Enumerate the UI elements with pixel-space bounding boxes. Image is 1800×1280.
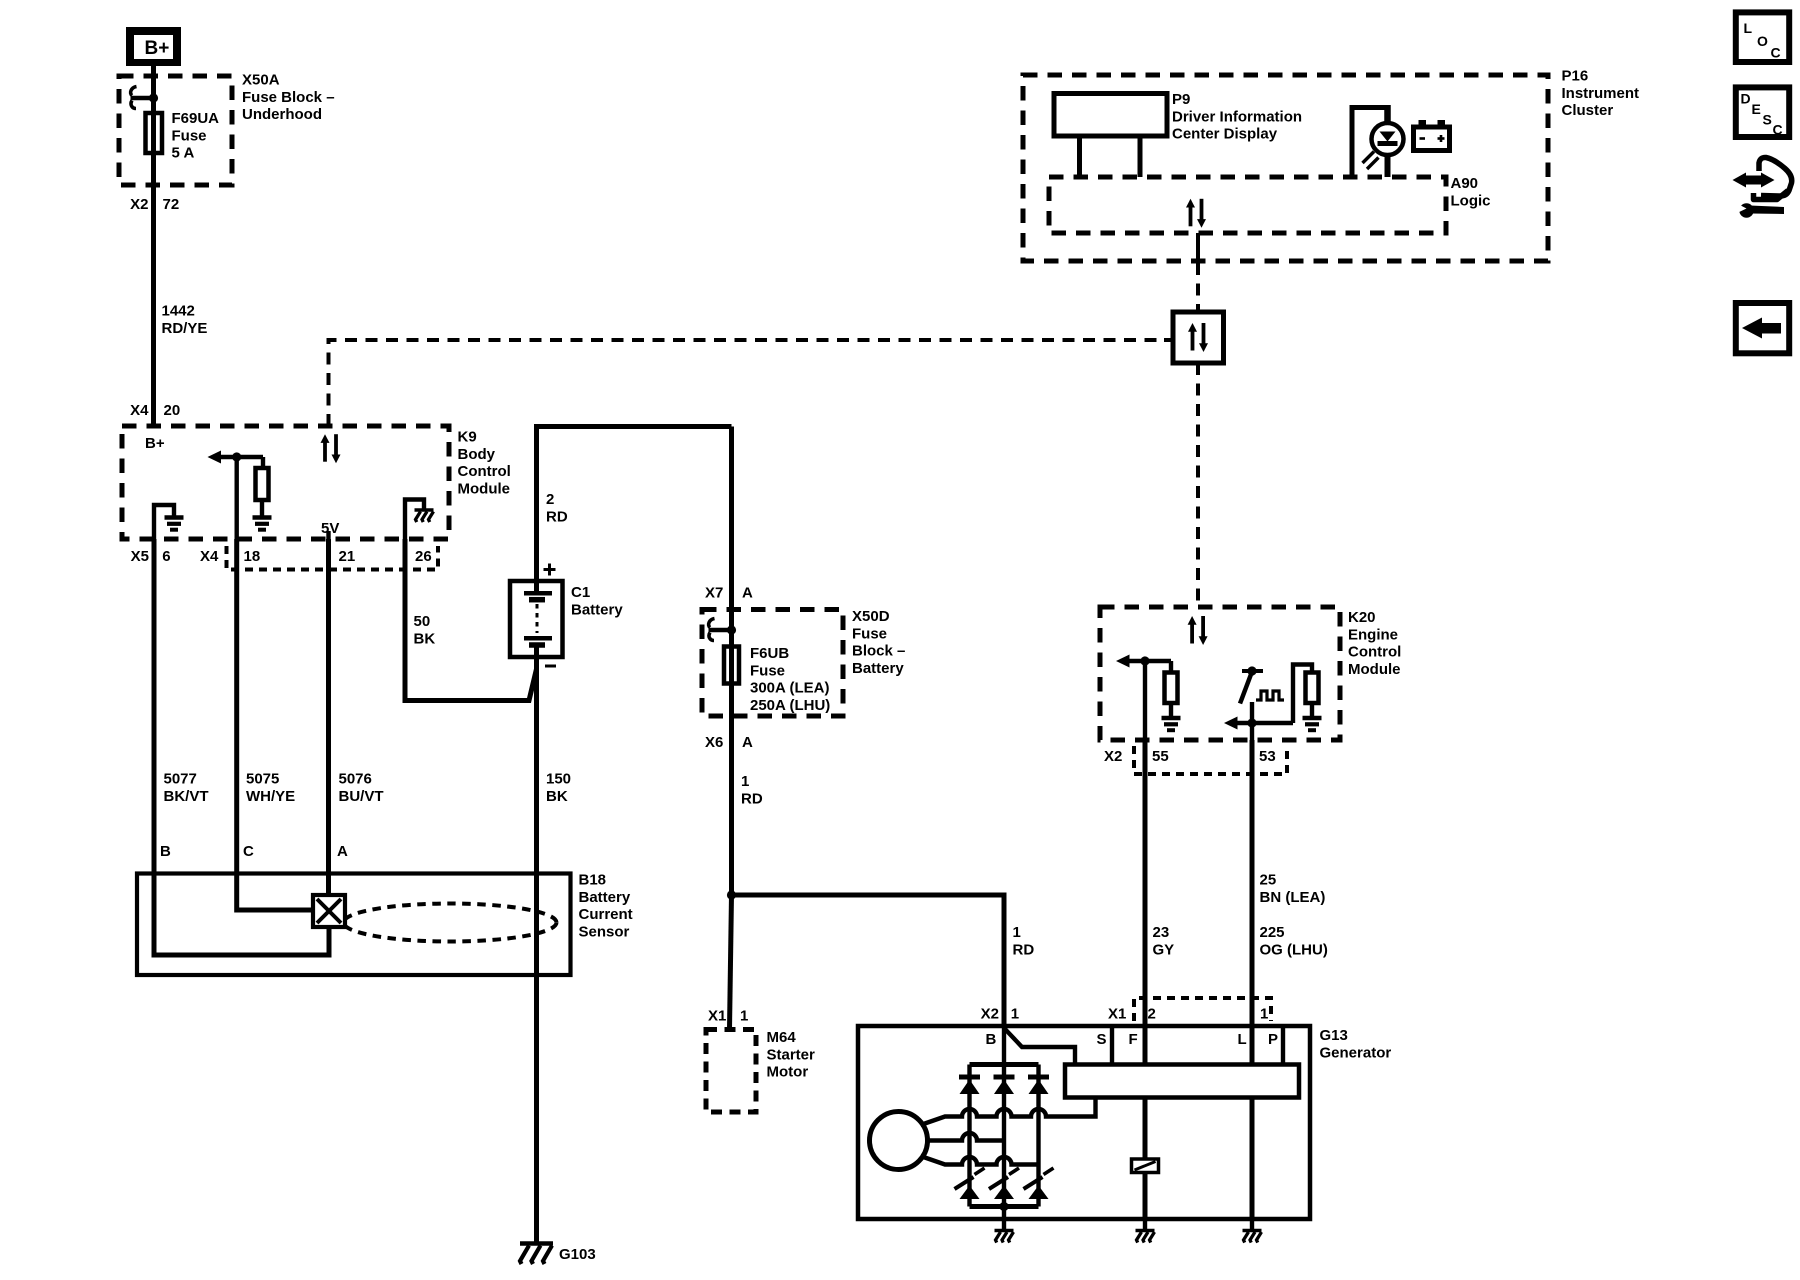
wire 25 BN 225 OG (1250, 740, 1255, 1219)
svg-text:5076: 5076 (339, 771, 372, 788)
rotor circle (870, 1112, 928, 1170)
svg-text:BK/VT: BK/VT (164, 788, 209, 805)
wire K9 pin6 internal bend (154, 505, 174, 539)
label 1 RD generator branch (1013, 924, 1035, 958)
wire battery cable through X50D to starter (729, 427, 734, 896)
svg-text:S: S (1763, 112, 1772, 128)
svg-text:B: B (986, 1031, 997, 1048)
svg-text:Fuse: Fuse (852, 625, 887, 642)
pin X1 1 starter (708, 1008, 748, 1025)
ground signal K9 left (165, 518, 184, 530)
svg-text:K20: K20 (1348, 609, 1376, 626)
svg-text:BN (LEA): BN (LEA) (1260, 889, 1326, 906)
fuse F6UB (724, 647, 739, 684)
svg-text:Block –: Block – (852, 643, 905, 660)
wire K20 right branch (1293, 665, 1312, 724)
svg-text:Body: Body (458, 446, 496, 463)
display P9 (1054, 94, 1167, 178)
svg-text:250A (LHU): 250A (LHU) (750, 697, 830, 714)
ground chassis K9 right (415, 510, 434, 522)
pin X2 72 (130, 196, 179, 213)
serial data arrows in splice box (1188, 323, 1208, 352)
label G13 Generator (1320, 1027, 1392, 1061)
wire serial data bus from K9 (329, 340, 1167, 426)
svg-text:300A (LEA): 300A (LEA) (750, 680, 829, 697)
label 150 BK (546, 771, 571, 805)
svg-text:RD: RD (1013, 941, 1035, 958)
svg-text:P: P (1268, 1031, 1278, 1048)
starter motor M64 dashed box (706, 1030, 756, 1113)
wire B18 internal loop B (154, 874, 329, 956)
svg-text:B18: B18 (579, 872, 607, 889)
svg-text:BK: BK (414, 630, 436, 647)
svg-text:2: 2 (546, 491, 554, 508)
diode top column 3 (1028, 1077, 1049, 1094)
signal arrow left K20 field sense (1116, 655, 1171, 668)
svg-text:M64: M64 (767, 1029, 797, 1046)
svg-text:OG (LHU): OG (LHU) (1260, 941, 1328, 958)
node junction K20 pin55 (1140, 656, 1149, 665)
svg-text:WH/YE: WH/YE (246, 788, 295, 805)
serial data arrows in K20 (1188, 616, 1208, 645)
terminal labels B S F L P (986, 1031, 1279, 1048)
svg-text:F6UB: F6UB (750, 645, 789, 662)
label C1 Battery (571, 584, 623, 618)
svg-text:A: A (742, 585, 753, 602)
stator phase bottom winding (921, 1156, 1039, 1165)
svg-text:X1: X1 (708, 1008, 726, 1025)
pin X4 20 (130, 402, 180, 419)
signal arrow left K20 lamp drive (1224, 717, 1293, 730)
wire switch to pin53 (1250, 702, 1254, 740)
svg-text:X4: X4 (200, 548, 219, 565)
ground signal under K20 left resistor (1162, 718, 1181, 730)
svg-text:C1: C1 (571, 584, 590, 601)
svg-text:Driver Information: Driver Information (1172, 108, 1302, 125)
svg-text:Logic: Logic (1451, 192, 1491, 209)
svg-text:Control: Control (458, 463, 511, 480)
resistor K20 left (1165, 661, 1178, 718)
label 1 RD starter cable (741, 773, 763, 807)
node battery plus sign (544, 564, 556, 576)
svg-text:X5: X5 (131, 548, 149, 565)
svg-text:D: D (1741, 91, 1751, 107)
battery current sensor B18 box (137, 874, 571, 976)
body control module K9 dashed box (122, 426, 449, 539)
node junction K20 pin53 (1247, 718, 1256, 727)
label 50 BK (414, 613, 436, 647)
label B18 Battery Current Sensor (579, 872, 633, 941)
label A90 Logic (1451, 175, 1491, 209)
diode bottom column 1 (955, 1168, 985, 1199)
svg-text:18: 18 (244, 548, 261, 565)
rectifier column 3 (1036, 1065, 1040, 1207)
wire serial data bus to cluster solid stub (1196, 233, 1200, 262)
resistor K20 right (1306, 673, 1319, 719)
wire B to regulator jog (1004, 1028, 1075, 1065)
switch contact node K20 (1242, 666, 1263, 675)
svg-text:L: L (1238, 1031, 1247, 1048)
svg-text:L: L (1744, 20, 1753, 36)
svg-text:1: 1 (1011, 1006, 1019, 1023)
rectifier top bus (970, 1062, 1039, 1067)
pins X1 2 1 generator (1108, 1006, 1268, 1023)
label K9 Body Control Module (458, 429, 511, 498)
svg-text:S: S (1097, 1031, 1107, 1048)
regulator bar (1065, 1065, 1299, 1098)
svg-text:X4: X4 (130, 402, 149, 419)
diode top column 2 (994, 1077, 1015, 1094)
PWM waveform symbol (1256, 691, 1284, 700)
label X50D Fuse Block Battery (852, 608, 905, 677)
svg-text:A90: A90 (1451, 175, 1479, 192)
svg-text:X2: X2 (1104, 748, 1122, 765)
svg-text:Underhood: Underhood (242, 106, 322, 123)
svg-text:1: 1 (741, 773, 749, 790)
svg-text:P9: P9 (1172, 91, 1190, 108)
svg-text:225: 225 (1260, 924, 1285, 941)
pins X2 55 53 (1104, 748, 1276, 765)
svg-text:5 A: 5 A (172, 145, 195, 162)
node B+ terminal box (126, 27, 181, 66)
stator phase middle winding (928, 1133, 1004, 1140)
label F6UB Fuse 300A 250A (750, 645, 830, 714)
svg-text:E: E (1752, 101, 1761, 117)
svg-text:X6: X6 (705, 734, 723, 751)
wire 5075 WH/YE (237, 539, 313, 910)
svg-text:RD: RD (741, 790, 763, 807)
svg-text:25: 25 (1260, 872, 1277, 889)
svg-text:X2: X2 (130, 196, 148, 213)
battery telltale icon (1414, 120, 1450, 151)
icon diagnostic tool (1733, 157, 1792, 217)
connector X4 dashed bracket under K9 (227, 546, 439, 570)
wire 2 RD battery positive (537, 427, 732, 594)
svg-text:Sensor: Sensor (579, 923, 630, 940)
svg-text:C: C (1771, 45, 1781, 61)
svg-text:Engine: Engine (1348, 626, 1398, 643)
svg-text:Instrument: Instrument (1562, 85, 1640, 102)
svg-text:G13: G13 (1320, 1027, 1348, 1044)
svg-text:Control: Control (1348, 644, 1401, 661)
fuse block X50D dashed box (702, 610, 843, 717)
rectifier column 1 (967, 1065, 971, 1207)
wire S terminal stub (1110, 1026, 1114, 1065)
engine control module K20 dashed box (1100, 607, 1340, 740)
svg-text:A: A (337, 843, 348, 860)
rectifier bottom bus (970, 1204, 1039, 1209)
battery C1 (510, 581, 563, 657)
svg-text:Center Display: Center Display (1172, 126, 1278, 143)
svg-text:X1: X1 (1108, 1006, 1126, 1023)
label wire 1442 RD/YE (162, 303, 208, 337)
svg-text:C: C (1773, 122, 1783, 138)
LED emission arrows (1363, 152, 1379, 170)
svg-text:Battery: Battery (571, 601, 623, 618)
svg-text:Generator: Generator (1320, 1044, 1392, 1061)
label 2 RD (546, 491, 568, 525)
indicator LED wire loop (1352, 108, 1388, 178)
svg-text:B+: B+ (145, 38, 170, 59)
wire 5077 BK/VT (152, 539, 157, 874)
logic module A90 dashed box (1049, 177, 1446, 233)
resistor in K9 (256, 457, 269, 518)
svg-text:P16: P16 (1562, 68, 1589, 85)
svg-text:O: O (1757, 33, 1768, 49)
svg-text:1: 1 (1260, 1006, 1268, 1023)
ground chassis generator center (995, 1231, 1014, 1243)
label 5075 WH/YE (246, 771, 295, 805)
field winding lamp symbol on F (1132, 1159, 1159, 1173)
rectifier column 2 (1002, 1065, 1006, 1207)
wire L ground stub (1250, 1219, 1254, 1230)
svg-text:B+: B+ (145, 435, 165, 452)
connector terminal hook in X50D (709, 619, 737, 641)
svg-text:BU/VT: BU/VT (339, 788, 384, 805)
node junction starter branch (727, 890, 736, 899)
svg-text:Module: Module (458, 480, 511, 497)
svg-text:RD/YE: RD/YE (162, 320, 208, 337)
wire branch to generator B (732, 895, 1005, 1026)
fuse block X50A dashed box (119, 76, 232, 185)
label 25 BN (LEA) (1260, 872, 1326, 906)
label 5076 BU/VT (339, 771, 384, 805)
svg-text:5075: 5075 (246, 771, 279, 788)
svg-text:X50A: X50A (242, 72, 280, 89)
svg-text:Cluster: Cluster (1562, 102, 1614, 119)
generator G13 box (858, 1026, 1310, 1219)
diode bottom column 3 (1024, 1168, 1054, 1199)
ground signal under K9 resistor (253, 518, 272, 530)
pin X6 A (705, 734, 753, 751)
svg-text:Module: Module (1348, 661, 1401, 678)
svg-text:Current: Current (579, 906, 633, 923)
svg-text:50: 50 (414, 613, 431, 630)
svg-text:Fuse Block –: Fuse Block – (242, 89, 335, 106)
svg-text:BK: BK (546, 788, 568, 805)
ground chassis generator F (1136, 1231, 1155, 1243)
svg-text:1442: 1442 (162, 303, 195, 320)
svg-text:X50D: X50D (852, 608, 890, 625)
label P9 Driver Information Center Display (1172, 91, 1302, 143)
wire serial data bus to K20 (1196, 363, 1200, 607)
ground chassis generator L (1243, 1231, 1262, 1243)
diode top column 1 (959, 1077, 980, 1094)
svg-text:X7: X7 (705, 585, 723, 602)
svg-text:72: 72 (163, 196, 180, 213)
icon LOC box (1736, 12, 1789, 62)
wire F ground stub (1143, 1219, 1147, 1230)
wire 5V stub (326, 531, 330, 539)
wire K9 pin18 internal (234, 457, 238, 539)
ground signal under K20 right resistor (1303, 718, 1322, 730)
sensor element X box in B18 (313, 895, 345, 927)
stator phase top winding (921, 1098, 1096, 1126)
svg-text:A: A (742, 734, 753, 751)
label 5077 BK/VT (164, 771, 209, 805)
svg-text:6: 6 (162, 548, 170, 565)
node junction K9 sense (232, 452, 241, 461)
svg-text:55: 55 (1152, 748, 1169, 765)
svg-text:GY: GY (1153, 941, 1175, 958)
svg-text:Starter: Starter (767, 1046, 816, 1063)
wire 150 BK battery negative to G103 (534, 645, 539, 1243)
switch lever K20 (1240, 673, 1252, 704)
wire 5076 BU/VT (326, 539, 331, 895)
svg-text:5077: 5077 (164, 771, 197, 788)
icon DESC box (1736, 87, 1789, 137)
label X50A Fuse Block Underhood (242, 72, 335, 124)
wire starter motor lead (730, 895, 732, 1029)
node battery minus sign (545, 665, 556, 668)
label 23 GY (1153, 924, 1175, 958)
connector terminal hook in X50A (131, 87, 159, 109)
svg-text:G103: G103 (559, 1246, 596, 1263)
serial data arrows in K9 (321, 434, 341, 463)
svg-text:21: 21 (339, 548, 356, 565)
wire B+ feed vertical 1442 (151, 66, 156, 426)
wire K9 pin26 internal bend (405, 500, 424, 540)
wire rectifier case ground (1002, 1207, 1006, 1231)
ground G103 (520, 1244, 553, 1265)
pins X2 1 generator B (981, 1006, 1020, 1023)
svg-text:Battery: Battery (852, 660, 904, 677)
connector X2 dashed bracket under K20 (1134, 746, 1287, 774)
splice box serial data (1173, 312, 1224, 363)
svg-text:B: B (160, 843, 171, 860)
svg-text:Fuse: Fuse (172, 127, 207, 144)
wire F below lamp (1143, 1173, 1148, 1220)
instrument cluster P16 dashed box (1023, 75, 1548, 261)
wire 23 GY (1143, 740, 1148, 1159)
pins B C A (160, 843, 348, 860)
svg-text:1: 1 (1013, 924, 1021, 941)
svg-text:150: 150 (546, 771, 571, 788)
svg-text:26: 26 (415, 548, 432, 565)
label M64 Starter Motor (767, 1029, 816, 1081)
signal arrow left in K9 (208, 451, 264, 464)
wire serial data bus dashed to splice (1196, 263, 1200, 312)
node junction bottom bus (999, 1202, 1008, 1211)
svg-text:K9: K9 (458, 429, 477, 446)
icon back arrow box (1736, 303, 1789, 353)
diode bottom column 2 (989, 1168, 1019, 1199)
svg-text:F: F (1129, 1031, 1138, 1048)
svg-text:F69UA: F69UA (172, 110, 220, 127)
serial data arrows in A90 (1186, 199, 1206, 228)
wire P terminal stub (1281, 1026, 1285, 1065)
pin X7 A (705, 585, 753, 602)
label 225 OG (LHU) (1260, 924, 1328, 958)
svg-text:Battery: Battery (579, 889, 631, 906)
connector X1 dashed bracket above generator (1134, 998, 1271, 1021)
wire K20 pin55 internal (1143, 661, 1147, 740)
svg-text:Motor: Motor (767, 1064, 809, 1081)
svg-text:C: C (243, 843, 254, 860)
svg-text:20: 20 (164, 402, 181, 419)
pins X5 6 X4 18 21 26 (131, 548, 432, 565)
wire B terminal to rectifier bus (1002, 1026, 1006, 1065)
svg-text:1: 1 (740, 1008, 748, 1025)
LED battery telltale (1372, 123, 1404, 177)
svg-text:RD: RD (546, 508, 568, 525)
label F69UA Fuse 5A (172, 110, 220, 162)
sensor clamp dashed ellipse (344, 904, 557, 942)
svg-text:23: 23 (1153, 924, 1170, 941)
svg-text:Fuse: Fuse (750, 662, 785, 679)
svg-text:X2: X2 (981, 1006, 999, 1023)
label P16 Instrument Cluster (1562, 68, 1640, 120)
svg-text:53: 53 (1259, 748, 1276, 765)
label K20 Engine Control Module (1348, 609, 1401, 678)
fuse F69UA (146, 113, 163, 153)
svg-text:2: 2 (1148, 1006, 1156, 1023)
wire 50 BK (405, 539, 537, 701)
